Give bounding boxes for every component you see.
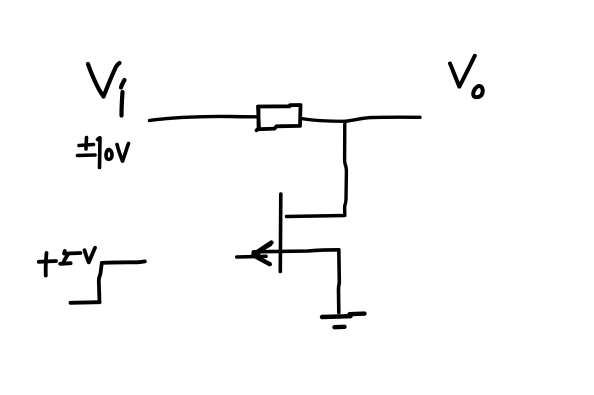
waveform: +5V step (gate control signal)	[71, 261, 145, 302]
arrow barb lower	[256, 257, 270, 265]
label Vo (output voltage node name)	[450, 56, 483, 97]
wire input Vi to resistor	[150, 116, 258, 120]
label ±10V (input amplitude)	[78, 138, 129, 168]
label Vi (input voltage node name)	[88, 63, 125, 116]
label +5V (gate drive amplitude)	[39, 248, 95, 276]
wire source to ground	[337, 250, 341, 313]
wire resistor to output Vo	[301, 117, 420, 121]
wire junction down to drain	[287, 122, 347, 217]
ground symbol	[322, 314, 365, 328]
resistor R1 (series gate of sampler)	[257, 105, 301, 130]
gate lead with arrowhead knot	[237, 254, 266, 258]
arrow barb upper (double sketched stroke)	[254, 243, 272, 255]
channel vertical bar	[278, 194, 282, 272]
transistor Q1 (JFET/MOSFET, gate arrow pointing left)	[237, 194, 339, 272]
source line crossing channel to the right	[254, 250, 339, 252]
